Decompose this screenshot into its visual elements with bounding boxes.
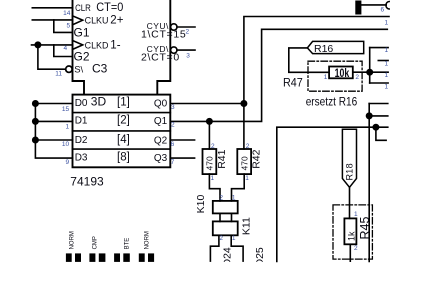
svg-text:2\CT=0: 2\CT=0 <box>141 51 180 63</box>
wire R18 to 1k <box>349 187 351 218</box>
svg-text:10k: 10k <box>335 68 350 80</box>
junction Q1 <box>207 119 212 124</box>
svg-text:1\CT=15: 1\CT=15 <box>141 28 186 40</box>
svg-text:1: 1 <box>66 123 70 130</box>
svg-text:6: 6 <box>171 141 175 148</box>
svg-text:2: 2 <box>219 195 223 202</box>
dash-dot box R45 <box>333 205 372 259</box>
right bus upper vertical <box>369 48 371 83</box>
wire CLKD pin4 <box>32 44 73 46</box>
svg-text:R18: R18 <box>345 163 355 180</box>
svg-text:G2: G2 <box>74 50 90 64</box>
svg-text:[4]: [4] <box>117 134 130 146</box>
junction 10k net <box>367 70 372 75</box>
svg-text:NORM: NORM <box>145 231 151 249</box>
svg-text:CMP: CMP <box>92 236 98 249</box>
junction y115.9 <box>367 113 372 118</box>
svg-text:470: 470 <box>205 156 215 170</box>
svg-text:Q0: Q0 <box>154 98 168 109</box>
right bus lower vertical <box>368 104 370 262</box>
svg-text:ersetzt R16: ersetzt R16 <box>306 97 358 109</box>
svg-text:3: 3 <box>186 52 190 59</box>
junction big box <box>373 125 378 130</box>
wire Q1 net <box>170 29 387 121</box>
S input bubble pin 11 <box>66 66 72 72</box>
wire Q2 stub pin6 <box>170 139 194 141</box>
stub y83 <box>370 82 388 84</box>
junction D0 <box>33 101 38 106</box>
svg-text:BTE: BTE <box>124 238 130 250</box>
junction Q0 <box>241 101 246 106</box>
wire D bus vertical <box>35 104 72 159</box>
relay K11 <box>213 221 238 235</box>
svg-text:1: 1 <box>211 175 215 182</box>
svg-text:K11: K11 <box>241 217 253 235</box>
svg-text:1-: 1- <box>110 39 120 51</box>
crop mask bottom <box>202 262 274 276</box>
svg-text:4: 4 <box>64 45 68 52</box>
svg-text:C3: C3 <box>92 62 108 76</box>
svg-text:1k: 1k <box>347 231 357 241</box>
svg-text:1: 1 <box>232 195 236 202</box>
svg-text:3: 3 <box>171 104 175 111</box>
svg-text:S\: S\ <box>74 64 83 75</box>
svg-text:D1: D1 <box>75 116 88 127</box>
wire R16 to 10k <box>289 48 329 72</box>
svg-text:R47: R47 <box>283 76 303 90</box>
svg-text:Q1: Q1 <box>154 116 168 127</box>
resistor R45 1k <box>344 218 356 244</box>
wire D0 pin15 <box>35 103 72 105</box>
svg-text:R16: R16 <box>314 43 333 55</box>
junction D2 <box>33 137 38 142</box>
wire CLKU pin5 <box>32 19 72 21</box>
svg-text:R42: R42 <box>251 149 263 168</box>
svg-text:K10: K10 <box>195 195 207 214</box>
svg-text:Q2: Q2 <box>154 136 168 147</box>
wire Q1 to R41 <box>208 121 210 149</box>
svg-text:R45: R45 <box>358 217 372 240</box>
svg-text:14: 14 <box>63 10 71 17</box>
wire bar to circle pin6 <box>361 4 387 6</box>
svg-text:[8]: [8] <box>117 151 130 163</box>
svg-text:11: 11 <box>55 70 62 77</box>
connector bar top right <box>356 1 361 13</box>
svg-text:1: 1 <box>385 83 389 90</box>
svg-text:74193: 74193 <box>70 175 104 189</box>
stub y47.6 <box>370 47 388 49</box>
clock wedge CLKU <box>73 16 83 25</box>
stub y103.5 <box>369 103 388 105</box>
svg-text:10: 10 <box>62 141 70 148</box>
svg-text:9: 9 <box>66 159 70 166</box>
wire G2 feedback <box>54 45 73 57</box>
svg-text:2: 2 <box>211 143 215 150</box>
svg-text:2: 2 <box>354 245 358 252</box>
net flag R16 <box>307 41 363 53</box>
svg-text:2: 2 <box>219 235 223 242</box>
wire Q0 net <box>170 103 244 105</box>
wire R42 to K10 <box>232 174 245 201</box>
resistor R42 <box>237 149 251 174</box>
clock wedge CLKD <box>73 41 83 50</box>
svg-text:3D: 3D <box>91 94 107 108</box>
svg-text:2: 2 <box>186 29 190 36</box>
svg-text:7: 7 <box>171 159 175 166</box>
wire D2 pin10 <box>35 139 72 141</box>
dash-dot box R47 <box>308 61 362 91</box>
svg-text:1: 1 <box>245 175 249 182</box>
big box edge top <box>277 127 388 261</box>
svg-text:1: 1 <box>385 47 389 54</box>
svg-text:5: 5 <box>67 22 71 29</box>
stub y60.5 <box>378 60 388 62</box>
wire S pin11 <box>38 45 66 69</box>
svg-text:1: 1 <box>385 72 389 79</box>
svg-text:CLR: CLR <box>75 3 91 14</box>
net flag R18 <box>342 129 356 187</box>
svg-text:[1]: [1] <box>117 97 130 109</box>
CY output bubble pin 13 <box>171 47 177 53</box>
wire K11 to D25 <box>231 235 243 261</box>
svg-text:2: 2 <box>246 143 250 150</box>
svg-text:6: 6 <box>381 7 385 14</box>
wire 1k down <box>349 244 351 261</box>
wires K10-K11 link <box>220 213 232 221</box>
wire K11 to D24 <box>210 235 219 261</box>
junction D1 <box>33 119 38 124</box>
resistor R41 <box>203 149 217 174</box>
wire D1 pin1 <box>35 120 72 122</box>
svg-text:CT=0: CT=0 <box>96 2 123 14</box>
svg-text:1: 1 <box>324 74 328 81</box>
wire 10k to right edge <box>353 71 388 73</box>
svg-text:1: 1 <box>385 20 389 27</box>
svg-text:D2: D2 <box>75 135 88 146</box>
junction CLKD <box>35 42 40 47</box>
wire Q3 stub pin7 <box>170 157 194 159</box>
wire CY pin12 stub <box>177 26 195 28</box>
wire CLR pin14 <box>32 7 72 9</box>
svg-text:2: 2 <box>355 74 359 81</box>
svg-text:Q3: Q3 <box>154 153 168 164</box>
relay K10 <box>213 201 238 214</box>
svg-text:G1: G1 <box>74 25 90 39</box>
svg-text:2: 2 <box>171 121 175 128</box>
wire G1 feedback <box>54 20 73 33</box>
CY output bubble pin 12 <box>171 24 177 30</box>
IC U1 74193 control block outline <box>73 0 171 95</box>
wire Q0 to top corner and right edge <box>244 17 389 150</box>
wire CY pin13 stub <box>177 49 195 51</box>
IC U1 74193 main box <box>73 95 171 168</box>
svg-text:1: 1 <box>232 235 236 242</box>
svg-text:D0: D0 <box>75 98 88 109</box>
wire R41 to K10 <box>209 174 220 201</box>
svg-text:470: 470 <box>239 156 249 170</box>
connector circle pin6 <box>386 2 389 10</box>
jumper pads <box>66 253 154 262</box>
svg-text:15: 15 <box>62 106 70 113</box>
svg-text:NORM: NORM <box>70 231 76 249</box>
resistor R47 10k <box>329 67 353 79</box>
stub y115.9 <box>369 115 388 117</box>
svg-text:[2]: [2] <box>117 115 130 127</box>
stub from big box top <box>376 127 386 140</box>
svg-text:D3: D3 <box>75 153 88 164</box>
svg-text:2+: 2+ <box>110 14 123 26</box>
svg-text:R41: R41 <box>216 149 228 168</box>
svg-text:1: 1 <box>385 60 389 67</box>
